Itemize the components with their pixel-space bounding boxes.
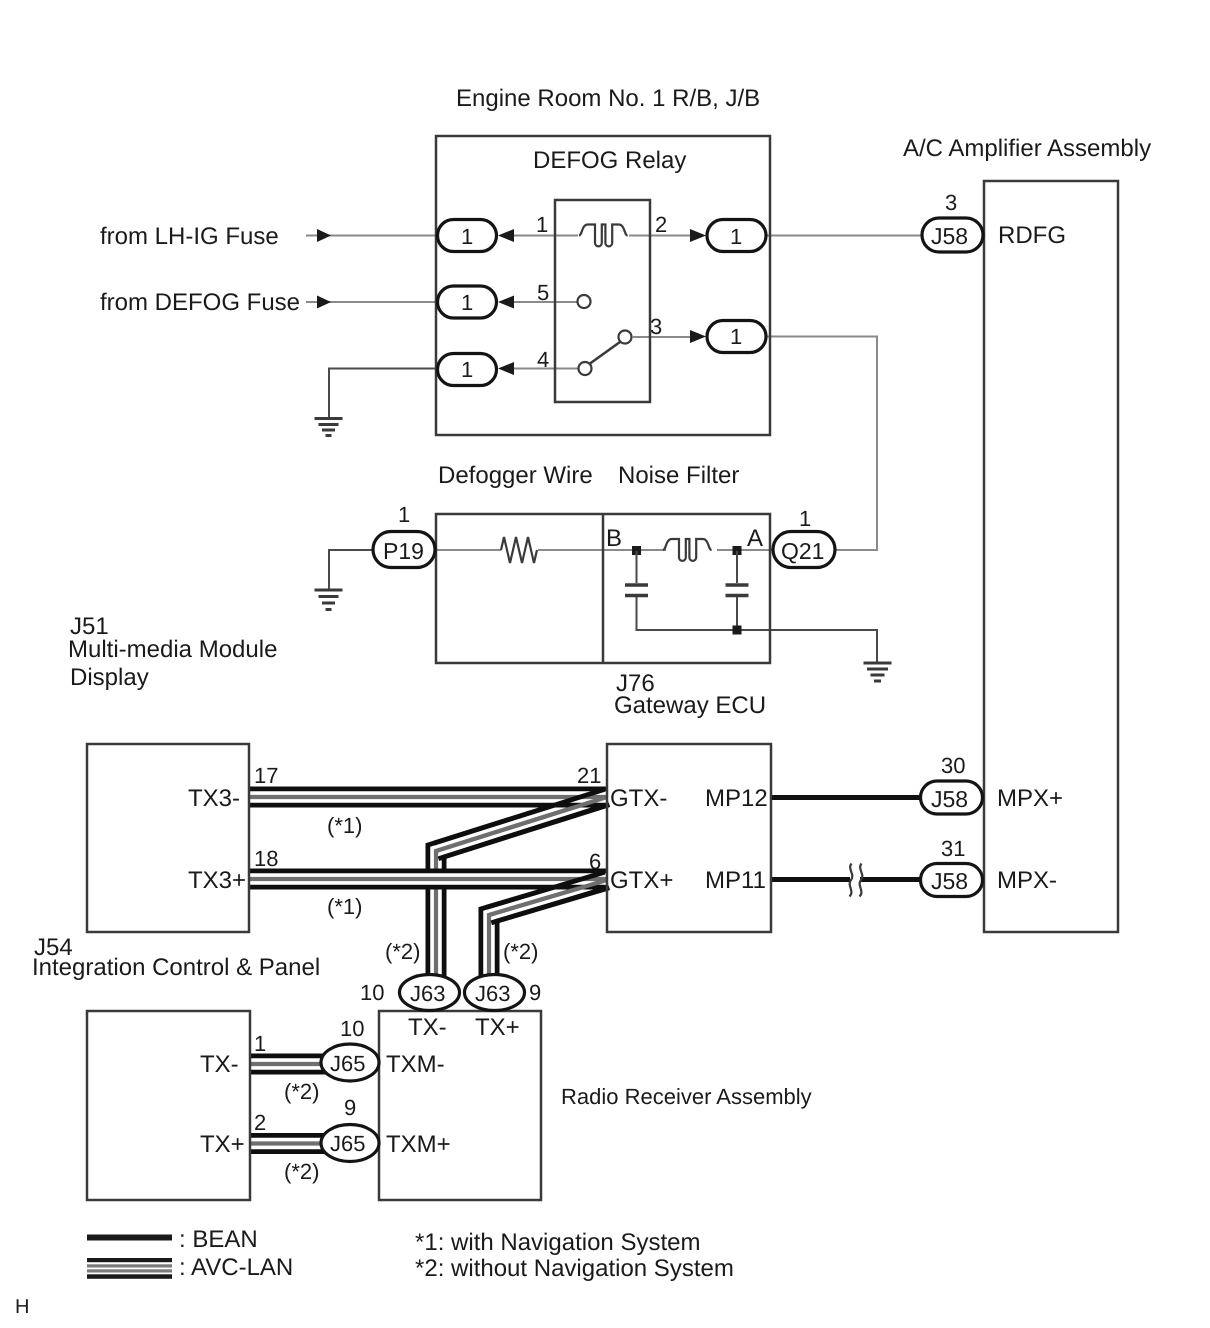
svg-text:TX+: TX+ [475, 1014, 520, 1041]
svg-text:3: 3 [650, 314, 662, 339]
svg-text:1: 1 [730, 224, 742, 249]
svg-text:5: 5 [537, 280, 549, 305]
svg-text:4: 4 [537, 347, 549, 372]
switch contact pin3 [619, 331, 632, 344]
capacitor C-A vertical leads [736, 551, 738, 583]
connector J58 MPX+ oval [921, 781, 983, 814]
svg-text:9: 9 [529, 980, 541, 1005]
svg-text:MPX-: MPX- [997, 867, 1057, 894]
wire relay pin4 row to ground [329, 369, 437, 418]
wire relay pin5 row [512, 301, 578, 303]
svg-text:(*2): (*2) [385, 939, 420, 964]
Radio Receiver Assembly box [379, 1011, 541, 1200]
AVC-LAN bundle TX3+ to GTX+ [249, 869, 607, 890]
arrow from LH-IG Fuse [317, 229, 331, 242]
BEAN legend bar [87, 1235, 172, 1241]
svg-text:17: 17 [254, 763, 278, 788]
BEAN wire MP11 to J58 MPX- with break [771, 877, 850, 882]
relay pin2 right oval [707, 220, 766, 252]
resistor of defogger wire [501, 537, 537, 563]
connector J58 MPX- oval [921, 864, 983, 897]
AVC-LAN bundle TX3- to GTX- [249, 787, 607, 808]
wire Q21 right to vertical [834, 549, 877, 551]
BEAN wire MP12 to J58 MPX+ [771, 795, 921, 800]
svg-text:J58: J58 [931, 786, 968, 812]
svg-text:GTX+: GTX+ [610, 867, 673, 894]
capacitor C-A plates [726, 583, 749, 587]
svg-text:Noise Filter: Noise Filter [618, 462, 739, 489]
noise filter coil [663, 539, 712, 561]
svg-text:TX3-: TX3- [188, 785, 240, 812]
arrowhead into right oval row2 [690, 330, 706, 343]
arrow from DEFOG Fuse [317, 296, 331, 309]
wire P19 to resistor [435, 549, 501, 551]
svg-text:: AVC-LAN: : AVC-LAN [179, 1254, 293, 1281]
svg-text:2: 2 [655, 212, 667, 237]
wire right oval row1 to J58 RDFG [767, 235, 922, 237]
switch blade from pin4 to pin3 [590, 342, 620, 364]
node A junction dot [733, 546, 742, 555]
relay pin3 right oval [707, 321, 766, 353]
coil of DEFOG relay [579, 225, 628, 247]
connector Q21 oval [773, 532, 835, 568]
svg-text:1: 1 [461, 290, 473, 315]
arrowhead into pin1 oval [498, 229, 514, 242]
connector J65 pin10 oval [321, 1044, 379, 1081]
svg-text:1: 1 [536, 212, 548, 237]
svg-text:1: 1 [254, 1031, 266, 1056]
svg-text:1: 1 [799, 506, 811, 531]
svg-text:TX-: TX- [408, 1014, 447, 1041]
svg-text:MP11: MP11 [705, 867, 766, 894]
wire-break squiggle marks [850, 864, 853, 897]
J51 Multi-media Module Display box [87, 744, 249, 932]
svg-text:(*1): (*1) [327, 813, 362, 838]
AVC-LAN bundle TX- to J65 pin10 [250, 1054, 340, 1075]
svg-text:(*2): (*2) [284, 1159, 319, 1184]
arrowhead into pin5 oval [498, 296, 514, 309]
svg-text:GTX-: GTX- [610, 785, 667, 812]
svg-text:TX+: TX+ [200, 1131, 245, 1158]
svg-text:A/C Amplifier Assembly: A/C Amplifier Assembly [903, 135, 1151, 162]
node B junction dot [632, 546, 641, 555]
svg-text:10: 10 [340, 1016, 364, 1041]
svg-text:TX3+: TX3+ [188, 867, 246, 894]
svg-text:H: H [15, 1296, 29, 1318]
svg-text:2: 2 [254, 1110, 266, 1135]
wire relay pin4 row inner [512, 368, 579, 370]
svg-text:21: 21 [577, 763, 601, 788]
wire P19 to ground [329, 550, 373, 589]
arrowhead into right oval row1 [690, 229, 706, 242]
J76 Gateway ECU box [607, 744, 771, 932]
wire right oval row2 down to Q21 [767, 337, 877, 551]
switch contact pin4 [579, 362, 592, 375]
svg-text:1: 1 [461, 357, 473, 382]
svg-text:10: 10 [360, 980, 384, 1005]
svg-text:Display: Display [70, 664, 149, 691]
svg-text:J58: J58 [931, 868, 968, 894]
svg-text:J65: J65 [330, 1131, 365, 1156]
bottom rail of noise filter to ground [637, 630, 878, 662]
svg-text:*1: with Navigation System: *1: with Navigation System [415, 1229, 700, 1256]
ground G2 [315, 590, 343, 610]
svg-text:9: 9 [344, 1095, 356, 1120]
svg-text:from DEFOG Fuse: from DEFOG Fuse [100, 289, 300, 316]
A/C Amplifier Assembly box [984, 181, 1118, 932]
svg-text:*2: without Navigation System: *2: without Navigation System [415, 1255, 734, 1282]
wire coil to pin2 arrowhead [629, 235, 692, 237]
Defogger Wire / Noise Filter box [436, 514, 770, 663]
svg-text:6: 6 [589, 849, 601, 874]
wire relay row1 oval to coil [512, 235, 578, 237]
svg-text:: BEAN: : BEAN [179, 1226, 258, 1253]
connector J65 pin9 oval [321, 1125, 379, 1162]
svg-text:J58: J58 [931, 223, 968, 249]
crossover fan overdraw at GTX- [434, 789, 608, 858]
svg-text:Q21: Q21 [781, 538, 824, 564]
wire coil to node A and Q21 [717, 549, 773, 551]
svg-text:from LH-IG Fuse: from LH-IG Fuse [100, 223, 279, 250]
capacitor C-B vertical leads [636, 551, 638, 583]
connector J63 pin10 oval [400, 975, 460, 1011]
svg-text:Defogger Wire: Defogger Wire [438, 462, 593, 489]
svg-text:1: 1 [398, 502, 410, 527]
svg-text:J65: J65 [330, 1051, 365, 1076]
arrowhead into pin4 oval [498, 362, 514, 375]
AVC-LAN bundle TX+ to J65 pin9 [250, 1133, 340, 1154]
svg-text:Gateway ECU: Gateway ECU [614, 692, 766, 719]
relay pin4 left oval [438, 354, 497, 386]
svg-text:TXM+: TXM+ [386, 1131, 451, 1158]
svg-text:J63: J63 [410, 981, 445, 1006]
svg-text:MP12: MP12 [705, 785, 768, 812]
svg-text:J63: J63 [475, 981, 510, 1006]
svg-text:DEFOG Relay: DEFOG Relay [533, 147, 686, 174]
wire from LH-IG Fuse arrow to relay pin1 oval [306, 235, 437, 237]
svg-text:Radio Receiver Assembly: Radio Receiver Assembly [561, 1084, 812, 1109]
DEFOG relay inner box [555, 200, 650, 402]
junction dot bottom rail [733, 626, 742, 635]
svg-text:1: 1 [461, 224, 473, 249]
AVC-LAN legend bars [87, 1258, 172, 1262]
svg-text:TXM-: TXM- [386, 1051, 445, 1078]
svg-text:Multi-media Module: Multi-media Module [68, 636, 277, 663]
svg-text:3: 3 [945, 190, 957, 215]
relay pin5 left oval [438, 286, 497, 318]
ground G3 [864, 663, 892, 681]
svg-text:TX-: TX- [200, 1051, 239, 1078]
capacitor C-B plates [625, 583, 648, 587]
Engine Room No.1 R/B J/B relay outer box [436, 136, 770, 435]
svg-text:31: 31 [941, 836, 965, 861]
svg-text:(*2): (*2) [284, 1079, 319, 1104]
wire from DEFOG Fuse arrow to relay pin2 oval [306, 301, 437, 303]
svg-text:1: 1 [730, 324, 742, 349]
svg-text:RDFG: RDFG [998, 222, 1066, 249]
svg-text:B: B [606, 525, 622, 552]
svg-text:18: 18 [254, 846, 278, 871]
lower-left box (Integration Control and Panel) [87, 1011, 250, 1200]
divider between Defogger Wire and Noise Filter [602, 514, 605, 663]
svg-text:30: 30 [941, 753, 965, 778]
svg-text:Engine Room No. 1 R/B, J/B: Engine Room No. 1 R/B, J/B [456, 85, 760, 112]
crossover fan overdraw at GTX+ [487, 872, 608, 923]
connector J63 pin9 oval [465, 975, 525, 1011]
AVC-LAN crossover GTX+ to J63 pin9 [489, 880, 607, 980]
switch contact pin5 [578, 295, 591, 308]
ground G1 [315, 419, 343, 436]
AVC-LAN crossover GTX- to J63 pin10 [436, 797, 607, 980]
svg-text:MPX+: MPX+ [997, 785, 1063, 812]
wire pin3 to right oval row2 [632, 336, 692, 338]
connector J58 RDFG oval [922, 218, 983, 252]
svg-text:A: A [747, 525, 763, 552]
svg-text:(*2): (*2) [503, 939, 538, 964]
relay pin1 left oval [438, 220, 497, 252]
svg-text:P19: P19 [383, 538, 424, 564]
svg-text:Integration Control & Panel: Integration Control & Panel [32, 954, 320, 981]
svg-text:(*1): (*1) [327, 894, 362, 919]
connector P19 oval [373, 532, 435, 568]
wire resistor to node B [538, 549, 666, 551]
